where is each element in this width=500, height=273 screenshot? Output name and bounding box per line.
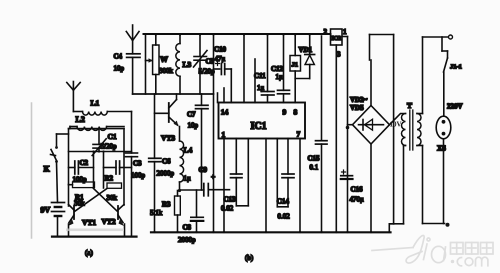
svg-text:C8: C8 [183,224,192,232]
svg-text:14: 14 [221,108,229,117]
svg-text:470μ: 470μ [350,196,365,204]
svg-text:(a): (a) [85,249,93,257]
svg-text:5.1k: 5.1k [150,209,163,217]
watermark jia.com [372,235,493,265]
wire: rail2 [133,93,214,95]
capacitor C8 [191,190,204,232]
svg-text:R2: R2 [105,175,114,183]
capacitor C12 [278,34,290,103]
svg-text:L4: L4 [184,146,193,155]
svg-text:C12: C12 [271,65,284,73]
svg-text:5/20p: 5/20p [101,143,117,151]
svg-text:C4: C4 [114,53,123,61]
wire: bottom rail (b) [151,231,391,233]
resistor R2 [107,183,122,188]
inductor L3 [176,34,180,94]
wire: left inner vertical [93,152,95,189]
switch K [51,134,69,163]
svg-text:W: W [160,55,168,64]
battery 9V [52,162,65,237]
svg-text:C6: C6 [162,158,171,166]
IC1 box [219,103,306,139]
svg-text:1μ: 1μ [257,84,265,92]
svg-text:C11: C11 [254,72,266,80]
svg-text:0.02: 0.02 [278,213,291,221]
inductor L4 [178,127,184,193]
svg-text:C9: C9 [199,166,208,174]
capacitor C2 [69,161,94,174]
capacitor (right branch) [104,161,132,174]
diode VD1 [295,34,314,79]
svg-text:VD1: VD1 [299,46,313,54]
resistor R3 [175,191,181,233]
relay J1 [290,34,301,103]
svg-text:J1-1: J1-1 [450,64,462,71]
wire: box right edge [123,129,125,205]
capacitor C15 [316,36,328,232]
svg-text:C16: C16 [351,186,364,194]
socket XS [436,116,451,223]
capacitor C6 [149,94,161,232]
transistor VT3 [155,94,179,127]
svg-text:0.1: 0.1 [310,164,319,172]
svg-text:(b): (b) [245,254,254,262]
capacitor C7 [196,94,209,190]
svg-text:2000p: 2000p [157,170,175,178]
svg-text:1μ: 1μ [276,73,284,81]
capacitor C14 [277,139,294,207]
svg-text:10p: 10p [188,122,199,130]
wire: IC2 pin1 [342,37,348,233]
junction dots on top rail [155,33,311,35]
svg-text:IC1: IC1 [251,121,267,132]
IC2 box [331,29,343,45]
svg-text:L1: L1 [91,99,100,108]
svg-text:VD2~: VD2~ [350,96,368,104]
relay contact J1-1 [442,37,448,116]
svg-text:C15: C15 [308,155,321,163]
transistor VT2 [118,205,125,237]
svg-text:1: 1 [222,130,226,139]
svg-text:3: 3 [337,51,341,59]
wire: emitter node horizontal [180,189,204,191]
svg-text:VT1: VT1 [82,218,96,227]
capacitor C11 [262,34,275,103]
svg-text:VD5: VD5 [350,104,364,112]
wire: bridge right to transformer, 10V [390,114,406,125]
wire: pin to ground [265,139,267,233]
scan smudge [66,229,124,232]
wire: tank box top edge [69,128,125,130]
svg-text:0.02: 0.02 [221,205,234,213]
transformer T [389,110,422,224]
IC1 top pin stubs [218,34,256,103]
svg-text:VT2: VT2 [102,217,116,226]
wire: mid rail [69,151,132,153]
wire: pin 7 to ground [299,139,301,233]
svg-text:220V: 220V [447,103,463,111]
potentiometer W [146,34,160,94]
svg-text:2: 2 [324,28,328,36]
svg-text:L2: L2 [76,115,85,124]
svg-text:9V: 9V [41,206,51,215]
svg-text:C14: C14 [277,198,290,206]
inductor L2 [70,127,124,131]
svg-text:C2: C2 [80,159,89,167]
svg-text:10V: 10V [390,121,402,129]
inductor L1 [73,112,131,116]
svg-text:C13: C13 [224,196,237,204]
variable capacitor C5 [194,34,208,94]
svg-text:R3: R3 [162,201,171,209]
svg-text:IC2: IC2 [331,36,341,42]
svg-text:XS: XS [437,145,446,153]
svg-text:VT3: VT3 [161,134,175,143]
svg-text:300k: 300k [159,67,174,75]
wire: mains loop [423,35,453,227]
svg-text:J1: J1 [292,62,299,69]
wire: left drop [145,34,147,94]
svg-text:30k: 30k [74,200,85,208]
capacitor C9 [204,184,230,196]
svg-text:5/20p: 5/20p [199,68,215,76]
svg-text:1μ: 1μ [184,175,192,183]
resistor R1 [69,182,95,188]
wire: top rail (b) [144,33,331,35]
svg-text:100p: 100p [131,172,146,180]
capacitor C16 [341,170,353,179]
capacitor C4 [127,54,140,94]
capacitor C10 [214,62,232,103]
junction dots on rails (a) [56,150,125,237]
wire: pin to ground [223,139,225,233]
svg-text:L3: L3 [183,60,192,69]
svg-text:C7: C7 [187,111,196,119]
svg-text:9: 9 [283,108,287,117]
variable capacitor C1 [92,129,106,156]
antenna (a) [67,82,80,112]
junction dots on bottom rail (b) [153,231,372,233]
svg-text:C10: C10 [214,46,227,54]
wire: cross coupling [75,189,118,212]
svg-text:C3: C3 [133,160,142,168]
transistor VT1 [68,185,74,237]
svg-text:1: 1 [343,28,347,36]
capacitor C13 [231,139,249,206]
wire: IC2 pin3 [335,45,337,232]
svg-text:C1: C1 [108,132,117,141]
svg-text:8: 8 [294,108,298,117]
capacitor C3 [126,112,138,237]
wire: right inner vertical [103,152,105,189]
svg-text:7: 7 [297,130,301,139]
svg-text:10p: 10p [114,65,125,73]
wire: bottom rail (a) [52,236,137,238]
antenna (b) [126,25,139,54]
wire: box left edge [68,129,70,185]
wire: bridge top to AC loop [370,35,394,233]
scan artifact left gray line [31,103,33,238]
svg-text:47μ: 47μ [215,55,226,63]
wire: C10 column [213,34,215,232]
svg-text:K: K [44,165,51,174]
svg-text:T: T [407,101,412,110]
svg-text:30k: 30k [107,194,118,202]
svg-text:2000p: 2000p [178,236,196,244]
bridge rectifier VD2-VD5 [346,106,390,233]
